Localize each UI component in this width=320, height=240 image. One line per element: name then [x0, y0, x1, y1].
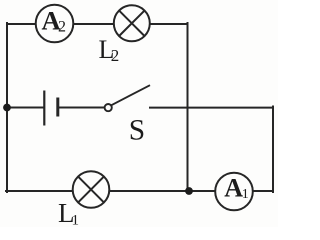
svg-text:1: 1 [72, 213, 80, 228]
svg-text:S: S [129, 114, 145, 146]
svg-text:1: 1 [242, 187, 249, 202]
svg-text:A: A [224, 174, 243, 203]
svg-text:2: 2 [111, 46, 120, 65]
svg-text:2: 2 [58, 19, 66, 36]
